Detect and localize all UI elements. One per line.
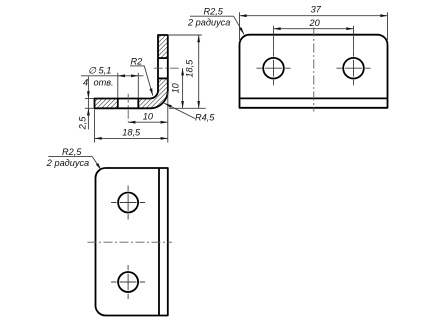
hole centerline horizontal (section) <box>154 67 181 69</box>
svg-text:2,5: 2,5 <box>78 116 88 131</box>
svg-text:отв.: отв. <box>94 78 114 88</box>
dimension 10 vertical (right) <box>182 68 184 108</box>
svg-text:2 радиуса: 2 радиуса <box>187 17 230 27</box>
hole edge lines (vertical leg) <box>158 58 168 78</box>
hole gap (horizontal leg) <box>118 97 138 109</box>
hole gap (vertical leg) <box>157 59 168 78</box>
hole circle (right, front view) <box>343 58 364 79</box>
section view: hatched L-profile fill <box>95 35 168 108</box>
dimension 18,5 bottom <box>95 110 168 143</box>
leader R2,5 2 radii (front view) <box>190 16 244 34</box>
svg-text:∅ 5,1: ∅ 5,1 <box>88 66 111 76</box>
svg-text:R2,5: R2,5 <box>204 6 224 16</box>
leader R2 (inner bend radius) <box>130 66 153 96</box>
hole center mark (upper, top view) <box>111 186 145 220</box>
vertical centerline (front view) <box>313 28 315 112</box>
svg-text:10: 10 <box>143 112 154 122</box>
hole centerline vertical (section) <box>127 94 129 122</box>
hole circle (lower, top view) <box>118 272 138 292</box>
leader R4,5 (outer bend radius) <box>164 103 195 118</box>
svg-text:20: 20 <box>308 18 320 28</box>
svg-text:10: 10 <box>171 82 181 93</box>
section view: L-profile outline <box>95 35 168 108</box>
leader R2,5 2 radii (top view) <box>48 157 101 170</box>
hole center mark (right, front view) <box>337 51 371 85</box>
dimension 18,5 vertical (right) <box>169 35 206 108</box>
front view: flange edge line <box>240 97 388 99</box>
svg-text:2 радиуса: 2 радиуса <box>46 158 89 168</box>
top view: flange edge line <box>158 168 160 316</box>
dimension 37 <box>240 12 388 40</box>
svg-text:18,5: 18,5 <box>122 127 141 137</box>
hole circle (left, front view) <box>263 58 284 79</box>
svg-text:R4,5: R4,5 <box>195 113 215 123</box>
dimension 10 bottom <box>128 92 168 143</box>
hole center mark (left, front view) <box>257 51 291 85</box>
hole edge lines (horizontal leg) <box>118 99 139 109</box>
svg-text:4: 4 <box>83 78 88 88</box>
svg-text:18,5: 18,5 <box>185 59 195 78</box>
hole circle (upper, top view) <box>118 193 138 213</box>
top view: plate outline with rounded left corners <box>96 168 168 316</box>
horizontal centerline (top view) <box>88 241 173 243</box>
dimension diameter 5,1 4 holes <box>81 73 144 98</box>
svg-text:R2: R2 <box>131 56 143 66</box>
svg-text:R2,5: R2,5 <box>62 147 82 157</box>
front view: plate outline with rounded top corners <box>240 35 388 108</box>
svg-text:37: 37 <box>311 5 322 15</box>
hole center mark (lower, top view) <box>111 265 145 299</box>
dimension 2,5 thickness (left) <box>85 77 94 130</box>
dimension 20 <box>274 26 354 51</box>
